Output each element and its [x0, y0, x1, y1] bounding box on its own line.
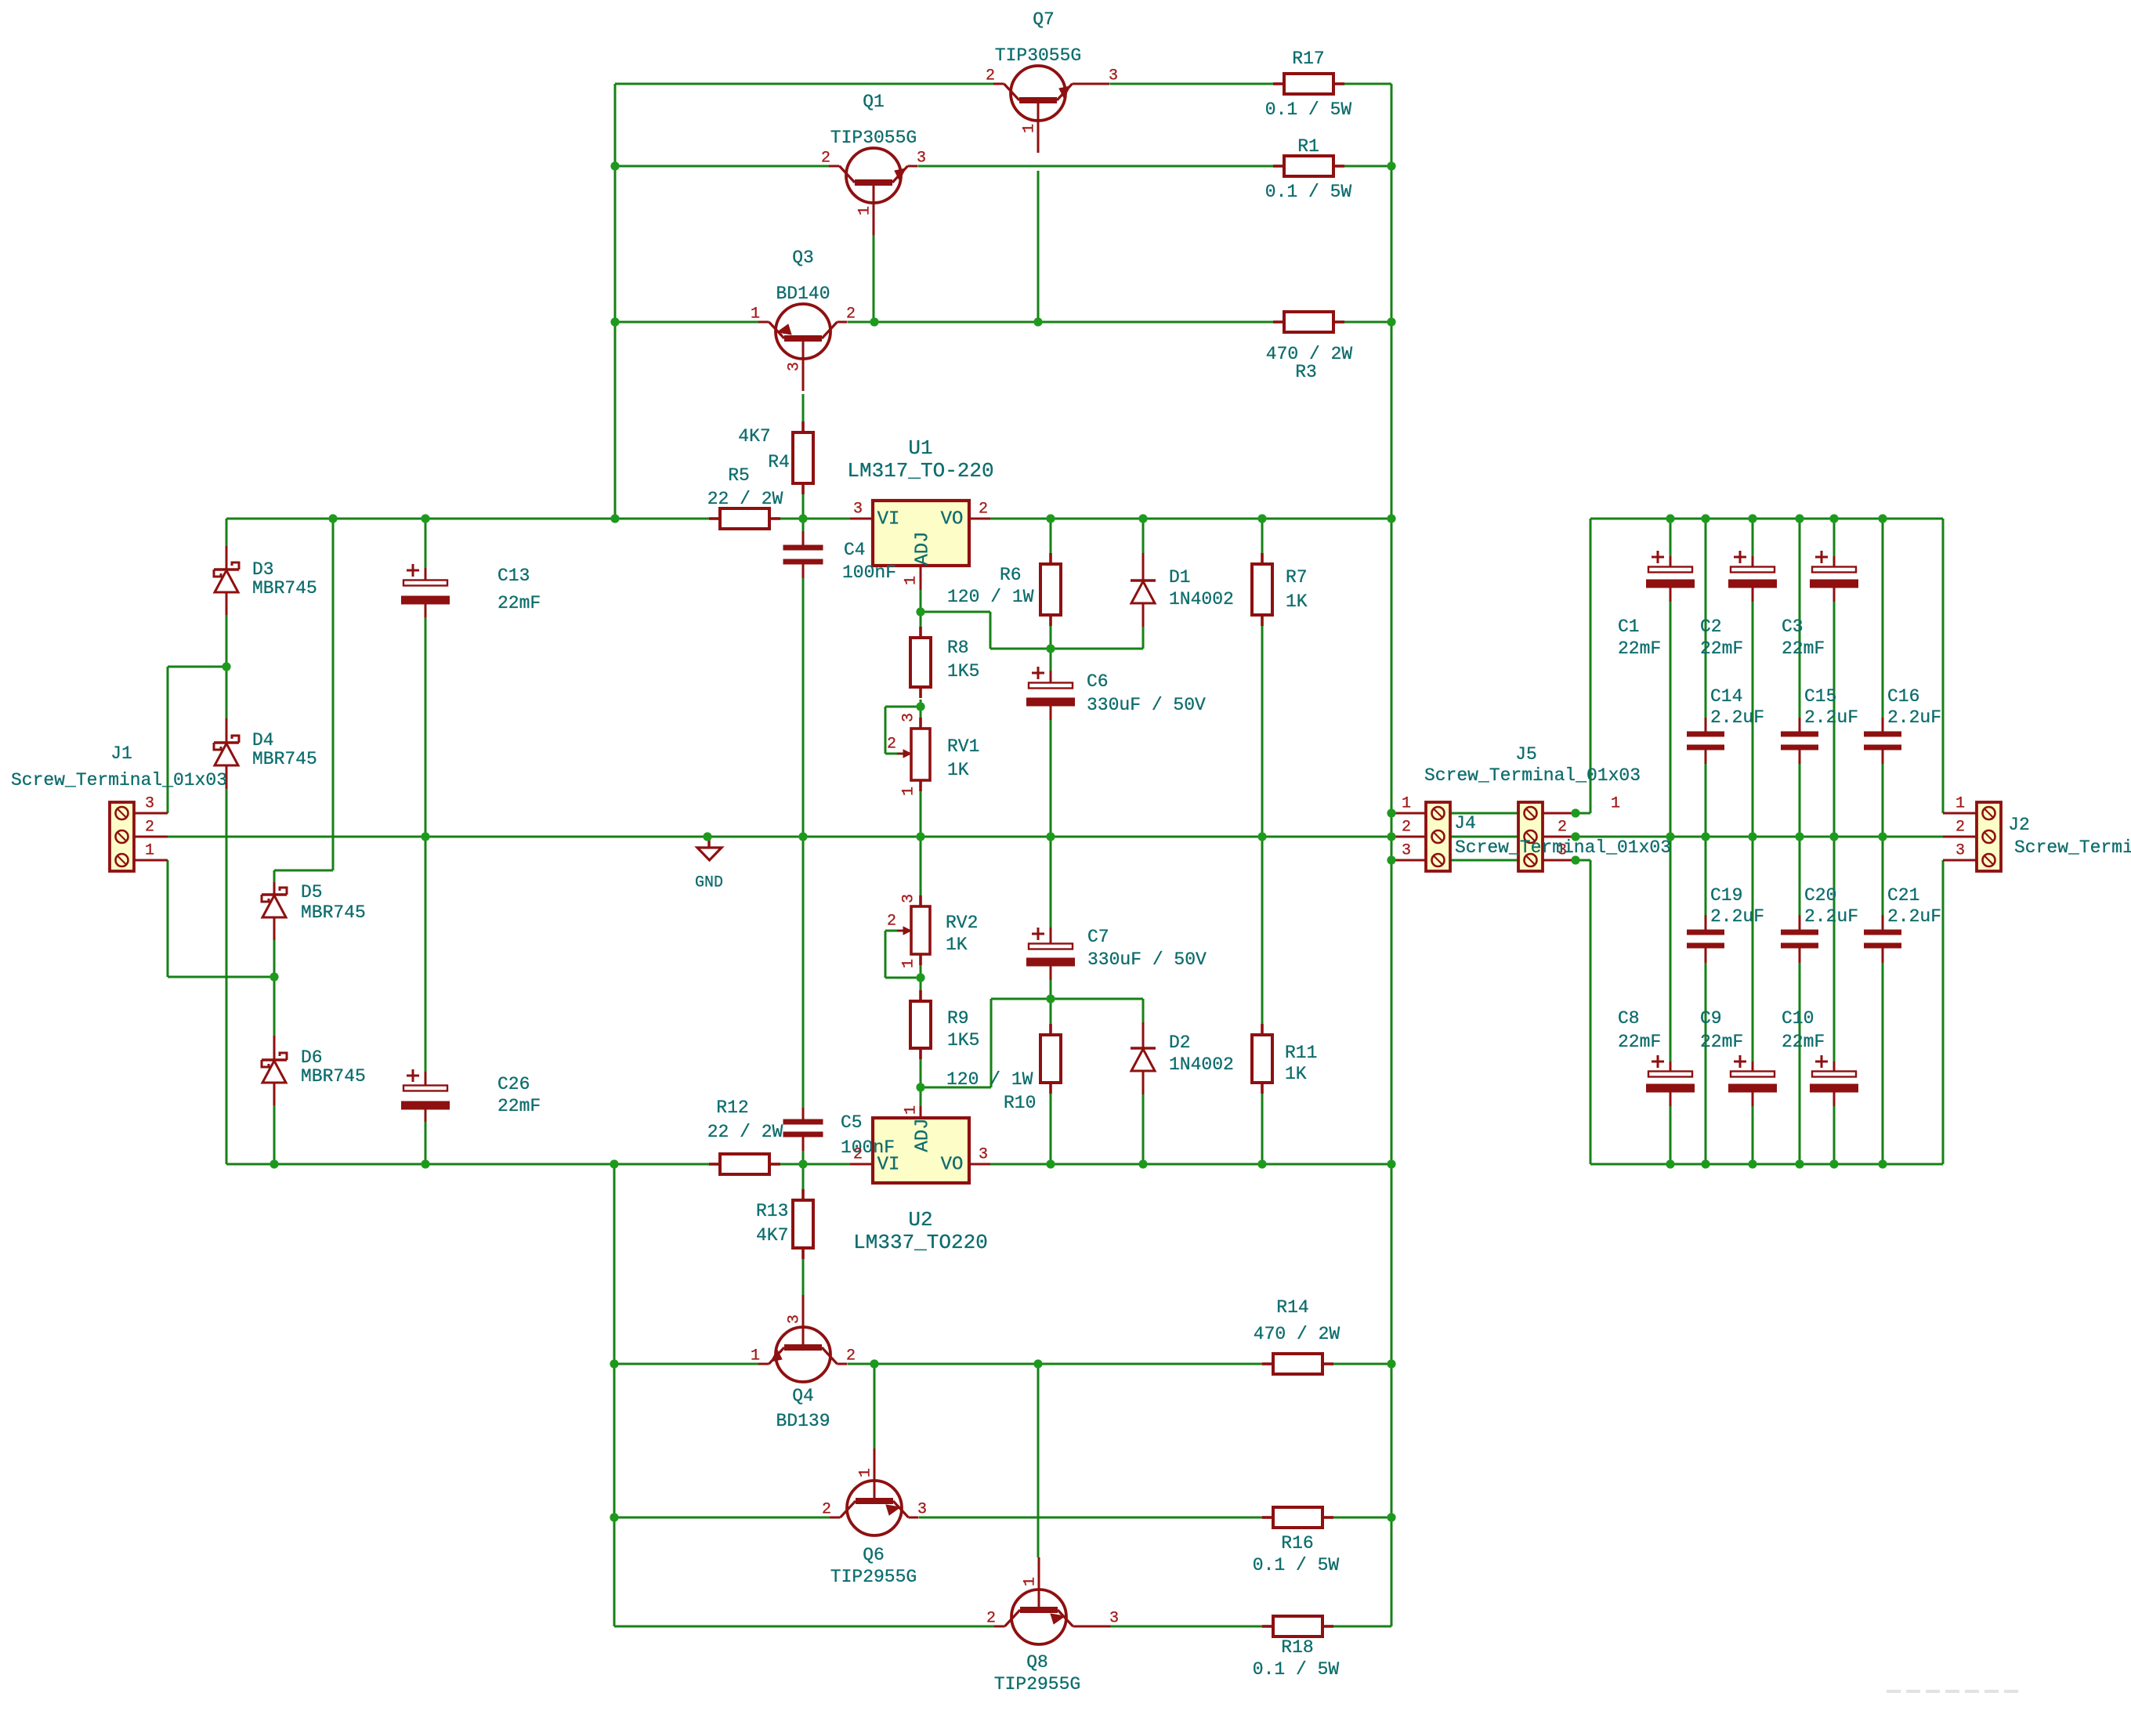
svg-text:Q8: Q8: [1026, 1652, 1048, 1673]
svg-text:Screw_Terminal_01x03: Screw_Terminal_01x03: [11, 770, 227, 790]
svg-text:Screw_Terminal_01x03: Screw_Terminal_01x03: [2014, 837, 2131, 858]
svg-text:C15: C15: [1804, 686, 1836, 707]
svg-text:3: 3: [1402, 842, 1411, 860]
svg-text:3: 3: [786, 1315, 804, 1324]
svg-text:MBR745: MBR745: [301, 1066, 366, 1087]
svg-text:GND: GND: [695, 874, 723, 892]
svg-text:1: 1: [900, 787, 918, 796]
svg-text:Q7: Q7: [1033, 9, 1055, 30]
svg-text:2: 2: [145, 819, 154, 837]
svg-text:470 / 2W: 470 / 2W: [1254, 1324, 1340, 1344]
svg-text:C10: C10: [1782, 1008, 1814, 1029]
svg-text:R12: R12: [716, 1098, 748, 1118]
svg-text:1: 1: [1611, 795, 1620, 813]
svg-text:J2: J2: [2008, 815, 2030, 835]
svg-text:R16: R16: [1281, 1533, 1313, 1553]
svg-text:22 / 2W: 22 / 2W: [707, 1122, 783, 1142]
svg-text:C26: C26: [497, 1074, 530, 1094]
svg-text:0.1 / 5W: 0.1 / 5W: [1265, 99, 1352, 120]
svg-text:R6: R6: [1000, 565, 1022, 585]
svg-text:C20: C20: [1804, 885, 1836, 906]
svg-text:2.2uF: 2.2uF: [1804, 906, 1858, 927]
svg-text:2: 2: [887, 913, 896, 931]
svg-text:C5: C5: [841, 1112, 863, 1133]
svg-text:1: 1: [1402, 795, 1411, 813]
svg-text:22mF: 22mF: [1618, 1032, 1661, 1052]
svg-text:1K: 1K: [1285, 1064, 1307, 1084]
svg-text:1: 1: [145, 842, 154, 860]
svg-text:4K7: 4K7: [756, 1225, 788, 1246]
svg-text:1: 1: [1021, 124, 1039, 133]
svg-text:C14: C14: [1710, 686, 1742, 707]
svg-text:ADJ: ADJ: [913, 1118, 934, 1152]
svg-text:1: 1: [1022, 1577, 1040, 1586]
svg-text:2: 2: [986, 67, 995, 85]
svg-text:C9: C9: [1700, 1008, 1722, 1029]
svg-text:3: 3: [900, 894, 918, 903]
svg-text:2.2uF: 2.2uF: [1710, 707, 1764, 728]
svg-text:MBR745: MBR745: [252, 578, 317, 599]
svg-text:1: 1: [856, 206, 874, 215]
svg-text:LM317_TO-220: LM317_TO-220: [847, 459, 993, 483]
svg-text:TIP2955G: TIP2955G: [994, 1674, 1080, 1694]
svg-text:C6: C6: [1087, 671, 1109, 692]
svg-text:R13: R13: [756, 1201, 788, 1221]
svg-text:D1: D1: [1169, 567, 1191, 588]
svg-text:Screw_Terminal_01x03: Screw_Terminal_01x03: [1424, 765, 1641, 786]
svg-text:22 / 2W: 22 / 2W: [707, 489, 783, 509]
svg-text:Q4: Q4: [792, 1386, 814, 1406]
svg-text:U2: U2: [908, 1208, 932, 1231]
svg-text:2: 2: [1956, 819, 1965, 837]
svg-text:C2: C2: [1700, 617, 1722, 637]
svg-text:4K7: 4K7: [738, 426, 770, 447]
svg-text:D6: D6: [301, 1047, 323, 1068]
svg-text:VO: VO: [941, 1155, 964, 1176]
svg-text:R17: R17: [1292, 49, 1324, 69]
svg-text:3: 3: [917, 1501, 927, 1519]
svg-text:R18: R18: [1281, 1637, 1313, 1658]
svg-text:2: 2: [887, 736, 896, 754]
svg-text:3: 3: [1109, 67, 1118, 85]
svg-text:C8: C8: [1618, 1008, 1640, 1029]
svg-text:BD139: BD139: [776, 1411, 830, 1431]
svg-text:Q3: Q3: [792, 248, 814, 268]
svg-text:LM337_TO220: LM337_TO220: [853, 1231, 988, 1254]
svg-text:1K5: 1K5: [947, 661, 979, 682]
svg-text:ADJ: ADJ: [913, 531, 934, 565]
svg-text:22mF: 22mF: [1700, 1032, 1743, 1052]
svg-text:C7: C7: [1087, 927, 1109, 947]
svg-text:TIP3055G: TIP3055G: [830, 128, 917, 148]
svg-text:1: 1: [1956, 795, 1965, 813]
svg-text:R1: R1: [1297, 136, 1319, 157]
svg-text:RV2: RV2: [946, 913, 978, 933]
svg-text:J5: J5: [1515, 744, 1537, 765]
svg-text:2: 2: [821, 150, 830, 168]
svg-text:3: 3: [1956, 842, 1965, 860]
svg-text:1: 1: [903, 576, 921, 585]
svg-text:U1: U1: [908, 436, 932, 460]
svg-text:C21: C21: [1887, 885, 1919, 906]
svg-text:3: 3: [145, 795, 154, 813]
svg-text:D3: D3: [252, 559, 274, 580]
svg-text:R3: R3: [1295, 362, 1317, 382]
svg-text:1N4002: 1N4002: [1169, 589, 1234, 609]
svg-text:BD140: BD140: [776, 284, 830, 304]
svg-text:C19: C19: [1710, 885, 1742, 906]
svg-text:1: 1: [751, 1347, 760, 1365]
svg-text:VI: VI: [877, 1155, 900, 1176]
svg-text:2: 2: [853, 1146, 863, 1164]
svg-text:22mF: 22mF: [497, 593, 541, 613]
svg-text:1K5: 1K5: [947, 1030, 979, 1051]
svg-text:1N4002: 1N4002: [1169, 1054, 1234, 1075]
svg-text:22mF: 22mF: [497, 1096, 541, 1116]
svg-text:2: 2: [1558, 819, 1567, 837]
svg-text:100nF: 100nF: [842, 562, 896, 583]
svg-text:C1: C1: [1618, 617, 1640, 637]
svg-text:D5: D5: [301, 882, 323, 902]
svg-text:MBR745: MBR745: [252, 749, 317, 769]
svg-text:2: 2: [846, 306, 856, 324]
svg-text:MBR745: MBR745: [301, 902, 366, 923]
svg-text:2: 2: [979, 501, 988, 519]
svg-text:VO: VO: [941, 509, 964, 530]
svg-text:C16: C16: [1887, 686, 1919, 707]
svg-text:3: 3: [917, 150, 926, 168]
svg-text:2.2uF: 2.2uF: [1804, 707, 1858, 728]
svg-text:0.1 / 5W: 0.1 / 5W: [1265, 182, 1352, 202]
svg-text:R10: R10: [1004, 1093, 1036, 1113]
svg-text:R8: R8: [947, 638, 969, 658]
svg-text:3: 3: [900, 713, 918, 722]
svg-text:0.1 / 5W: 0.1 / 5W: [1253, 1555, 1340, 1575]
svg-text:3: 3: [853, 501, 863, 519]
svg-text:2: 2: [986, 1610, 996, 1628]
svg-text:TIP2955G: TIP2955G: [830, 1567, 917, 1587]
svg-text:R14: R14: [1276, 1297, 1308, 1318]
svg-text:120 / 1W: 120 / 1W: [947, 587, 1034, 607]
svg-text:1: 1: [903, 1105, 921, 1115]
svg-text:1: 1: [857, 1468, 875, 1477]
svg-text:VI: VI: [877, 509, 900, 530]
svg-text:2.2uF: 2.2uF: [1710, 906, 1764, 927]
svg-text:22mF: 22mF: [1782, 638, 1825, 659]
svg-text:1: 1: [900, 959, 918, 968]
svg-text:22mF: 22mF: [1782, 1032, 1825, 1052]
svg-text:D4: D4: [252, 730, 274, 750]
svg-text:D2: D2: [1169, 1033, 1191, 1053]
svg-text:R9: R9: [947, 1008, 969, 1029]
svg-text:22mF: 22mF: [1700, 638, 1743, 659]
svg-text:J4: J4: [1454, 813, 1476, 834]
svg-text:120 / 1W: 120 / 1W: [946, 1069, 1033, 1090]
svg-text:C4: C4: [844, 540, 866, 560]
svg-text:R7: R7: [1286, 567, 1308, 588]
svg-text:2: 2: [846, 1347, 856, 1365]
svg-text:J1: J1: [110, 743, 132, 764]
svg-text:R4: R4: [768, 452, 790, 472]
svg-text:R5: R5: [728, 465, 750, 486]
svg-text:3: 3: [979, 1146, 988, 1164]
svg-text:R11: R11: [1285, 1043, 1317, 1063]
svg-text:330uF / 50V: 330uF / 50V: [1087, 949, 1207, 970]
svg-text:2.2uF: 2.2uF: [1887, 707, 1941, 728]
svg-text:RV1: RV1: [947, 736, 979, 757]
svg-text:3: 3: [786, 362, 804, 371]
svg-text:TIP3055G: TIP3055G: [995, 45, 1081, 66]
svg-text:1K: 1K: [947, 760, 969, 780]
svg-text:1: 1: [751, 306, 760, 324]
svg-text:0.1 / 5W: 0.1 / 5W: [1253, 1659, 1340, 1680]
svg-text:C3: C3: [1782, 617, 1804, 637]
svg-text:330uF / 50V: 330uF / 50V: [1087, 695, 1206, 715]
svg-text:1K: 1K: [946, 935, 968, 955]
svg-text:22mF: 22mF: [1618, 638, 1661, 659]
svg-text:C13: C13: [497, 566, 530, 586]
svg-text:2: 2: [1402, 819, 1411, 837]
svg-text:1K: 1K: [1286, 591, 1308, 612]
svg-text:3: 3: [1109, 1610, 1119, 1628]
svg-text:Screw_Terminal_01x03: Screw_Terminal_01x03: [1455, 837, 1671, 858]
svg-text:2: 2: [822, 1501, 831, 1519]
svg-text:Q1: Q1: [863, 92, 885, 112]
svg-text:Q6: Q6: [863, 1545, 885, 1565]
svg-text:2.2uF: 2.2uF: [1887, 906, 1941, 927]
